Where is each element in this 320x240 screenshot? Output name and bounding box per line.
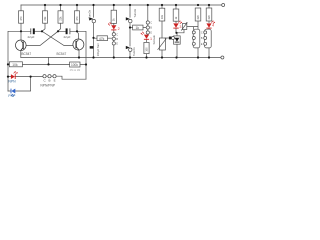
svg-text:470: 470	[20, 16, 23, 21]
svg-text:22µF: 22µF	[64, 35, 71, 39]
svg-text:2: 2	[118, 27, 120, 31]
svg-text:NPN/PNP: NPN/PNP	[40, 83, 55, 87]
svg-text:4: 4	[212, 23, 214, 27]
svg-text:100k: 100k	[71, 63, 78, 67]
svg-text:100µF Tant: 100µF Tant	[96, 43, 100, 56]
svg-text:TurnOn: TurnOn	[133, 8, 137, 17]
svg-text:C: C	[201, 32, 203, 35]
svg-text:C: C	[150, 22, 152, 25]
svg-text:22µF: 22µF	[28, 35, 35, 39]
svg-text:C: C	[116, 33, 118, 36]
svg-text:NPN: NPN	[8, 80, 16, 84]
svg-text:SetGain: SetGain	[152, 35, 156, 45]
svg-text:47k: 47k	[99, 37, 105, 41]
svg-text:BC547: BC547	[57, 52, 67, 56]
svg-text:E: E	[54, 79, 56, 83]
svg-text:47k to 1M: 47k to 1M	[70, 69, 81, 72]
svg-text:1: 1	[150, 37, 152, 41]
svg-text:220: 220	[208, 15, 211, 20]
svg-text:100: 100	[145, 47, 148, 52]
svg-text:BC547: BC547	[21, 52, 31, 56]
svg-text:1k: 1k	[136, 26, 140, 30]
svg-text:TurnOn: TurnOn	[132, 47, 136, 56]
svg-text:B: B	[49, 79, 51, 83]
svg-text:PNP: PNP	[8, 94, 16, 98]
svg-text:10k: 10k	[12, 63, 18, 67]
svg-text:3: 3	[179, 25, 181, 29]
svg-text:TurnOn: TurnOn	[87, 9, 91, 18]
svg-text:470: 470	[76, 16, 79, 21]
svg-text:220: 220	[197, 15, 200, 20]
